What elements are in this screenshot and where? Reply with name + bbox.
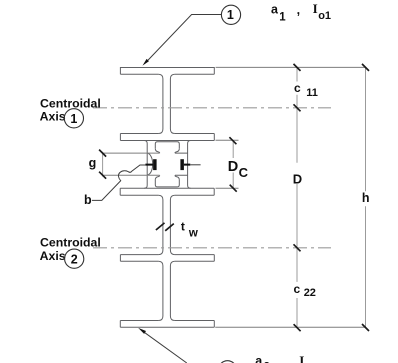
- svg-text:Centroidal: Centroidal: [40, 236, 101, 250]
- extension line top: [216, 66, 365, 68]
- bottom leader with arrow: [145, 333, 187, 363]
- svg-text:D: D: [228, 159, 238, 175]
- ticks h: [362, 64, 369, 331]
- spool right shoulders: [175, 153, 188, 175]
- ticks Dc: [229, 137, 236, 192]
- bolt right: [180, 159, 184, 170]
- svg-text:C: C: [239, 165, 249, 180]
- g dimension line: [102, 152, 104, 177]
- Dc dimension line: [232, 140, 234, 188]
- spool cap (top): [155, 142, 179, 149]
- top leader with arrow: [148, 15, 222, 61]
- bolt left: [153, 159, 157, 170]
- ticks g: [99, 150, 106, 179]
- svg-text:2: 2: [71, 252, 78, 266]
- svg-text:Centroidal: Centroidal: [40, 96, 101, 110]
- svg-text:,: ,: [282, 355, 285, 363]
- gap block left edge: [144, 141, 147, 189]
- svg-text:g: g: [89, 156, 97, 170]
- beam 2 bottom flange F5: [120, 321, 214, 328]
- web break symbol: [156, 223, 174, 231]
- beam 1 top flange F1: [120, 68, 214, 75]
- spool cup feet: [155, 175, 179, 179]
- h dimension line: [365, 67, 367, 327]
- beam 2 middle flange F4: [120, 255, 214, 262]
- Dc extension lines: [216, 140, 239, 188]
- g extension lines: [103, 153, 160, 175]
- gap block right edge: [188, 141, 191, 189]
- svg-text:a: a: [255, 354, 263, 363]
- svg-text:D: D: [293, 171, 302, 186]
- svg-text:I: I: [313, 1, 318, 16]
- svg-text:Axis: Axis: [40, 249, 66, 263]
- top circle 1: [221, 5, 240, 24]
- svg-text:w: w: [188, 227, 198, 239]
- svg-text:c: c: [294, 282, 301, 296]
- svg-text:,: ,: [297, 3, 300, 17]
- svg-text:22: 22: [304, 287, 316, 299]
- spool cup (bottom): [155, 180, 179, 187]
- beam 1 bottom flange F2: [120, 134, 214, 141]
- svg-text:a: a: [271, 3, 279, 17]
- centroidal axis 1: [93, 107, 331, 109]
- centroidal axis 2: [93, 247, 331, 249]
- svg-text:o1: o1: [318, 10, 331, 22]
- b leader with hop: [92, 165, 145, 200]
- beam 2 top flange F3: [120, 188, 214, 195]
- c column dimension line: [296, 67, 298, 327]
- rivet dome arc: [147, 153, 152, 175]
- extension line bottom: [215, 326, 364, 328]
- bolt pins: [145, 164, 190, 166]
- spool cap feet: [155, 149, 179, 153]
- svg-text:1: 1: [70, 112, 77, 126]
- svg-text:b: b: [84, 193, 92, 207]
- ticks c column: [294, 64, 301, 331]
- beam 2 web lower: [158, 261, 175, 320]
- beam 2 web upper: [158, 195, 175, 254]
- svg-text:c: c: [294, 81, 301, 95]
- svg-text:I: I: [299, 353, 304, 363]
- svg-text:1: 1: [279, 12, 286, 24]
- bottom circle 2 (partial): [219, 361, 237, 363]
- beam 1 web: [158, 74, 175, 133]
- svg-text:h: h: [362, 191, 370, 205]
- svg-text:11: 11: [306, 87, 318, 99]
- svg-text:Axis: Axis: [40, 110, 66, 124]
- svg-text:1: 1: [227, 8, 234, 22]
- svg-text:t: t: [181, 219, 185, 233]
